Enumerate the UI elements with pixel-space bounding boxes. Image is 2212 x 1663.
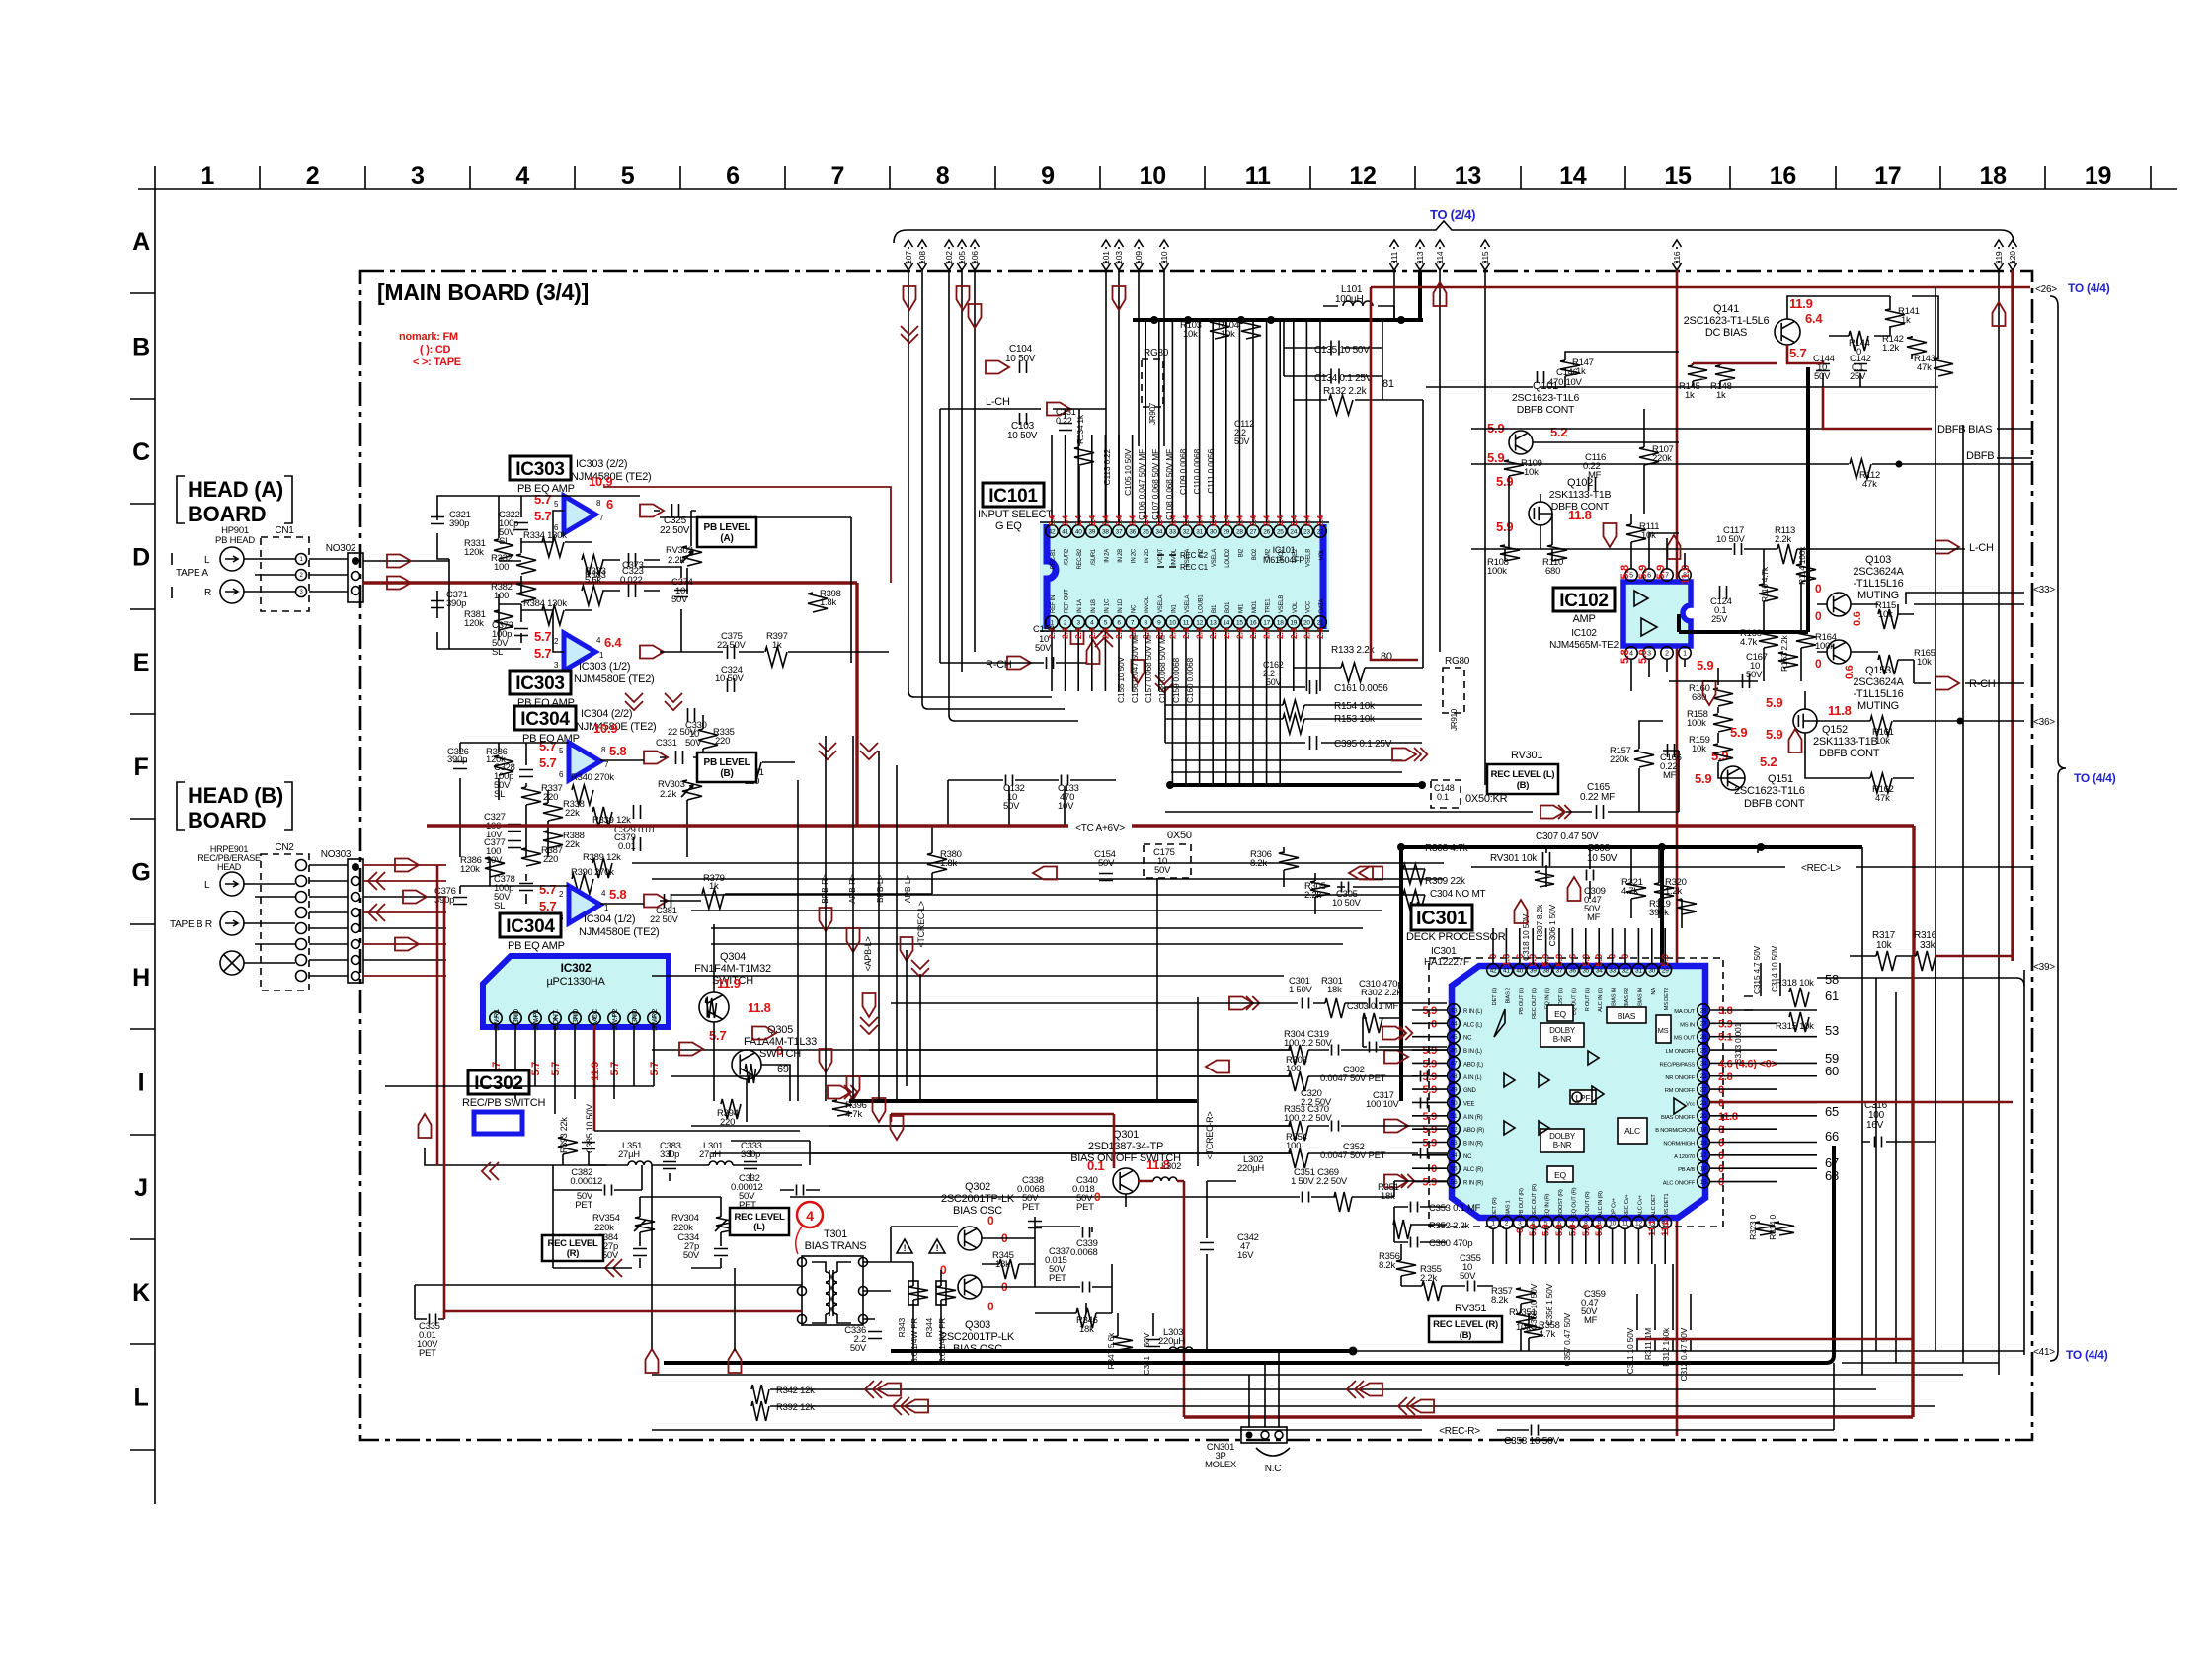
svg-text:C306 1 50V: C306 1 50V: [1547, 904, 1557, 946]
rec/pb head R: [220, 911, 244, 935]
wire: [1850, 955, 1916, 957]
IC302 spare blue box: [474, 1112, 522, 1134]
wire: [1545, 928, 1547, 963]
wire: [1401, 847, 1590, 899]
wire: [1293, 320, 1295, 524]
wire: [363, 560, 449, 562]
svg-text:8.2k: 8.2k: [1491, 1295, 1508, 1306]
svg-text:2.4: 2.4: [1302, 627, 1311, 639]
svg-text:5.7: 5.7: [1789, 346, 1806, 360]
svg-text:5.8: 5.8: [609, 887, 626, 902]
capacitor C146: [1538, 371, 1544, 383]
svg-text:109: 109: [1134, 251, 1144, 265]
wire: [1412, 1062, 1447, 1064]
IC101 package: [1040, 522, 1329, 631]
svg-text:1k: 1k: [1716, 390, 1726, 401]
svg-text:50V: 50V: [1460, 1271, 1476, 1282]
resistor R164: [1796, 632, 1816, 648]
svg-text:47k: 47k: [1917, 362, 1932, 373]
svg-text:50V: 50V: [602, 1250, 619, 1261]
svg-text:5.8: 5.8: [1619, 649, 1631, 664]
arrow: [395, 859, 419, 872]
svg-text:ALC (R): ALC (R): [1463, 1167, 1483, 1173]
capacitor C317: [1421, 1098, 1428, 1109]
svg-text:42: 42: [1490, 967, 1497, 974]
svg-text:C106 0.047 50V MF: C106 0.047 50V MF: [1137, 449, 1146, 520]
wire: [1279, 320, 1281, 524]
svg-text:C356 1 50V: C356 1 50V: [1544, 1283, 1554, 1325]
svg-text:REC OUT (R): REC OUT (R): [1532, 1184, 1538, 1217]
wire: [443, 1311, 446, 1319]
svg-text:0: 0: [1718, 1177, 1724, 1189]
inductor L351: [628, 1161, 652, 1165]
wire: [652, 1049, 1291, 1051]
capacitor C379: [634, 837, 641, 851]
svg-text:5.7: 5.7: [709, 1028, 726, 1043]
svg-text:B-NR: B-NR: [1553, 1035, 1572, 1044]
capacitor C334: [714, 1249, 728, 1256]
svg-text:VSELB: VSELB: [1305, 549, 1311, 567]
wire: [2023, 970, 2025, 1355]
resistor R142: [1907, 337, 1927, 355]
wire: [244, 884, 295, 963]
svg-text:Q304: Q304: [720, 951, 746, 963]
svg-text:4.7k: 4.7k: [845, 1109, 862, 1120]
wire: [436, 865, 439, 1165]
svg-text:10k: 10k: [1878, 609, 1893, 620]
wire: [1305, 320, 1307, 524]
svg-text:RV301: RV301: [1511, 750, 1542, 761]
svg-text:C395 0.1 25V: C395 0.1 25V: [1334, 739, 1392, 750]
wire: [1212, 629, 1214, 785]
svg-text:16V: 16V: [1866, 1120, 1884, 1131]
svg-text:MS DET1: MS DET1: [1664, 1194, 1670, 1217]
svg-text:Q102: Q102: [1567, 477, 1593, 489]
svg-text:114: 114: [1435, 251, 1445, 264]
wire: [1091, 435, 1093, 524]
resistor R162: [1870, 773, 1892, 793]
svg-text:C360 470p: C360 470p: [1429, 1238, 1472, 1249]
svg-text:1: 1: [1683, 651, 1687, 658]
resistor R103: [1210, 321, 1229, 339]
resistor R333: [582, 555, 603, 575]
resistor R337: [521, 787, 541, 805]
svg-text:2.4: 2.4: [1289, 515, 1299, 526]
svg-text:C159 0.0068: C159 0.0068: [1171, 658, 1181, 703]
wire: [1294, 400, 1423, 668]
svg-text:( ): CD: ( ): CD: [420, 344, 451, 356]
wire: [1571, 1229, 1573, 1264]
wire: [1585, 928, 1587, 963]
resistor R345: [999, 1259, 1019, 1279]
wire: [1651, 1229, 1653, 1264]
wire: [1165, 687, 1422, 743]
wire: [1710, 1088, 1777, 1090]
svg-text:36: 36: [1129, 528, 1136, 535]
capacitor C371: [431, 601, 444, 608]
svg-text:PB HEAD: PB HEAD: [215, 535, 255, 546]
wire: [1051, 435, 1053, 524]
svg-text:5.9: 5.9: [1718, 1018, 1733, 1030]
svg-text:48: 48: [1451, 1073, 1458, 1080]
capacitor C338: [1028, 1222, 1042, 1228]
wire: [1294, 399, 1423, 401]
svg-text:5.9: 5.9: [1766, 727, 1782, 742]
arrow: [644, 895, 668, 908]
resistor R355: [1422, 1281, 1442, 1301]
svg-text:30: 30: [1210, 528, 1217, 535]
wire: [1710, 1049, 1777, 1051]
svg-text:5.8: 5.8: [609, 744, 626, 758]
svg-text:BOOST (R): BOOST (R): [1558, 1189, 1564, 1217]
wire: [1145, 629, 1146, 691]
resistor R104: [1241, 321, 1261, 339]
svg-text:Q103: Q103: [1865, 554, 1891, 566]
wire: [1225, 629, 1227, 785]
svg-text:AMP: AMP: [1572, 613, 1595, 625]
svg-text:20: 20: [1700, 1113, 1707, 1120]
svg-text:Q101: Q101: [1533, 380, 1558, 392]
wire: [1484, 270, 1486, 785]
svg-text:R392 12k: R392 12k: [776, 1402, 815, 1413]
IC304 label box (2/2): [514, 706, 576, 730]
svg-text:R308 4.7k: R308 4.7k: [1425, 843, 1469, 854]
svg-text:(L): (L): [753, 1222, 764, 1232]
resistor R393: [558, 1137, 578, 1154]
capacitor C303: [1370, 1042, 1377, 1053]
svg-text:10 50V: 10 50V: [1007, 431, 1038, 441]
svg-text:R114 100k: R114 100k: [1797, 546, 1807, 585]
svg-text:RG80: RG80: [1445, 656, 1470, 667]
svg-text:100: 100: [494, 591, 509, 601]
svg-text:C: C: [132, 438, 150, 466]
IC301 right pins: [1698, 1004, 1710, 1017]
svg-text:11: 11: [1622, 1220, 1629, 1227]
svg-text:120: 120: [2008, 251, 2017, 265]
svg-text:220µH: 220µH: [1158, 1336, 1185, 1347]
svg-text:R IN (L): R IN (L): [1463, 1009, 1482, 1015]
svg-text:47k: 47k: [1875, 793, 1890, 804]
arrow: [1392, 749, 1416, 761]
wire: [1104, 435, 1106, 524]
svg-text:5.9: 5.9: [1496, 519, 1513, 534]
IC101 pins bottom: [1046, 616, 1059, 629]
svg-text:100 2.2 50V: 100 2.2 50V: [1284, 1113, 1332, 1124]
wire: [363, 583, 857, 826]
wire: [1962, 425, 1964, 1363]
svg-text:R323 0: R323 0: [1748, 1214, 1758, 1239]
svg-text:7: 7: [830, 162, 844, 190]
svg-text:<APB-L>: <APB-L>: [863, 937, 873, 972]
svg-text:28: 28: [1700, 1007, 1707, 1014]
capacitor C326: [453, 762, 467, 769]
svg-text:NC: NC: [1132, 604, 1138, 613]
svg-text:5.9: 5.9: [1496, 474, 1513, 489]
svg-text:39: 39: [1530, 967, 1537, 974]
wire: [1077, 629, 1079, 691]
wire: [1571, 928, 1573, 963]
svg-text:IC302: IC302: [561, 961, 592, 975]
arrow: [1047, 403, 1070, 416]
svg-text:R344: R344: [924, 1317, 934, 1337]
IC302 package: [483, 956, 669, 1027]
svg-text:1.2k: 1.2k: [1665, 886, 1682, 897]
wire: [908, 270, 909, 612]
arrow: [1935, 541, 1959, 554]
wire: [1585, 1229, 1587, 1264]
resistor R113: [1777, 544, 1797, 564]
wire: [711, 927, 1363, 929]
svg-text:ALC DET: ALC DET: [1651, 1194, 1657, 1217]
svg-text:41: 41: [1503, 967, 1510, 974]
svg-text:5.9: 5.9: [1637, 565, 1649, 580]
resistor R353: [1289, 1121, 1308, 1141]
capacitor C319: [1332, 1045, 1339, 1056]
svg-text:0.22: 0.22: [1056, 416, 1072, 426]
wire: [1225, 320, 1227, 524]
svg-text:2.2k: 2.2k: [1420, 1273, 1437, 1284]
svg-text:NC: NC: [1463, 1036, 1472, 1042]
svg-text:0.0047 50V PET: 0.0047 50V PET: [1320, 1073, 1386, 1084]
svg-text:16: 16: [1250, 619, 1257, 626]
svg-text:DECK PROCESSOR: DECK PROCESSOR: [1406, 931, 1506, 943]
svg-text:1k: 1k: [772, 640, 782, 651]
svg-text:22 50V: 22 50V: [668, 727, 697, 738]
svg-text:ABO (R): ABO (R): [1463, 1128, 1484, 1134]
svg-text:5.7: 5.7: [539, 755, 556, 770]
wire: [825, 736, 827, 1101]
svg-text:2SC1623-T1L6: 2SC1623-T1L6: [1734, 785, 1805, 797]
svg-text:C307 0.47 50V: C307 0.47 50V: [1536, 831, 1599, 842]
svg-text:58: 58: [1825, 972, 1839, 987]
svg-text:PB LEVEL: PB LEVEL: [704, 757, 750, 768]
capacitor C342: [1200, 1243, 1214, 1250]
svg-text:BIAS TRANS: BIAS TRANS: [805, 1240, 867, 1252]
svg-text:5.9: 5.9: [1695, 771, 1711, 786]
warning triangles: [897, 1239, 945, 1253]
resistor R318: [1789, 988, 1809, 1007]
svg-text:IN1: IN1: [1171, 604, 1177, 614]
transistor Q102: [1529, 502, 1552, 525]
svg-text:Vcc: Vcc: [1686, 1101, 1695, 1107]
connector <114>: [1436, 240, 1445, 270]
wire: [1412, 1075, 1447, 1077]
svg-text:/SUR2: /SUR2: [1065, 548, 1070, 565]
wire: [1598, 1229, 1600, 1264]
svg-text:108: 108: [917, 251, 927, 265]
wire: [1651, 928, 1653, 963]
svg-text:22k: 22k: [565, 808, 580, 819]
arrow: [904, 286, 916, 310]
svg-text:EQ OUT (R): EQ OUT (R): [1571, 1187, 1577, 1217]
svg-text:33: 33: [1609, 967, 1616, 974]
arrow: [1668, 535, 1681, 559]
svg-text:2SC1623-T1-L5L6: 2SC1623-T1-L5L6: [1684, 315, 1770, 327]
svg-text:2.4: 2.4: [1073, 627, 1083, 639]
svg-text:GND: GND: [571, 1008, 580, 1025]
svg-text:17: 17: [1263, 619, 1270, 626]
svg-text:2.4: 2.4: [1100, 515, 1110, 526]
arrow: [969, 304, 982, 328]
svg-text:Q152: Q152: [1822, 724, 1848, 736]
wire: [711, 1152, 1291, 1154]
wire: [1284, 320, 1382, 400]
svg-text:REC-B1: REC-B1: [1051, 548, 1057, 569]
arrow: [1087, 640, 1100, 664]
svg-text:B IN (R): B IN (R): [1463, 1142, 1483, 1148]
svg-text:IC301: IC301: [1431, 946, 1457, 957]
wire - heavy bus: [849, 1099, 1197, 1103]
capacitor C360: [1411, 1237, 1418, 1248]
capacitor C395: [1310, 736, 1317, 750]
svg-text:ALC (L): ALC (L): [1463, 1022, 1482, 1028]
svg-text:RG80: RG80: [1144, 348, 1169, 358]
svg-text:REC OUT (L): REC OUT (L): [1532, 988, 1538, 1019]
resistor R301: [1325, 998, 1345, 1018]
svg-text:C313 0.001: C313 0.001: [1733, 1022, 1743, 1064]
svg-text:2.4: 2.4: [1315, 627, 1325, 639]
resistor R382: [516, 583, 536, 602]
svg-text:<TCREC-L>: <TCREC-L>: [916, 901, 926, 947]
svg-text:(B): (B): [720, 768, 733, 779]
svg-text:2: 2: [1665, 651, 1669, 658]
arrow: [820, 1049, 832, 1072]
connector CN301: [1241, 1427, 1287, 1443]
svg-text:EQ: EQ: [1554, 1009, 1566, 1019]
wire: [309, 559, 348, 592]
svg-text:40: 40: [1075, 528, 1082, 535]
label HEAD (A) BOARD: [177, 476, 185, 523]
svg-text:38: 38: [1542, 967, 1549, 974]
svg-text:C331: C331: [656, 738, 677, 749]
svg-text:BIAS ON/OFF: BIAS ON/OFF: [1661, 1115, 1696, 1121]
svg-text:PET: PET: [1076, 1202, 1094, 1213]
arrow: [1703, 681, 1716, 705]
wire: [1412, 1181, 1447, 1183]
svg-text:R314 0: R314 0: [1768, 1214, 1777, 1239]
inductor L302: [1153, 1177, 1177, 1181]
svg-text:5.7: 5.7: [534, 629, 551, 644]
brace TO (4/4) right: [2050, 296, 2066, 1361]
inductor L301: [709, 1161, 733, 1165]
wire: [363, 864, 446, 866]
svg-text:27: 27: [1250, 528, 1257, 535]
svg-text:<33>: <33>: [2033, 585, 2055, 595]
wire: [940, 409, 1106, 663]
transistor Q152: [1793, 709, 1817, 733]
svg-text:10k: 10k: [1183, 329, 1198, 340]
resistor R389: [592, 858, 612, 878]
IC302 label box: [468, 1070, 529, 1094]
wire - <26> maroon: [1371, 286, 2030, 289]
resistor R321: [1626, 883, 1646, 899]
capacitor C104: [1020, 361, 1027, 373]
arrow: [1113, 286, 1126, 310]
wire: [244, 559, 295, 592]
svg-text:REC LEVEL (L): REC LEVEL (L): [1491, 769, 1555, 780]
wire: [1266, 629, 1268, 785]
arrow: [1789, 729, 1802, 752]
capacitor C374: [674, 591, 688, 597]
svg-text:R133 2.2k: R133 2.2k: [1331, 645, 1376, 656]
svg-text:50V: 50V: [850, 1343, 867, 1354]
svg-text:34: 34: [1596, 967, 1603, 974]
svg-text:10k: 10k: [1692, 744, 1706, 754]
svg-text:IC304: IC304: [506, 916, 555, 937]
svg-text:DBFB CONT: DBFB CONT: [1517, 404, 1575, 416]
svg-text:2SC3624A: 2SC3624A: [1853, 676, 1904, 688]
wire: [1842, 1362, 1999, 1364]
svg-text:2.4: 2.4: [1234, 627, 1244, 639]
capacitor C339: [1083, 1282, 1090, 1293]
svg-text:NJM4580E (TE2): NJM4580E (TE2): [579, 926, 659, 938]
wire: [1412, 1088, 1447, 1090]
svg-text:CN2: CN2: [275, 842, 294, 853]
resistor R397: [765, 647, 787, 667]
svg-text:(B): (B): [1460, 1330, 1472, 1341]
wire: [1505, 1229, 1507, 1264]
wire: [652, 1363, 1834, 1430]
svg-text:IC101: IC101: [1273, 545, 1296, 555]
capacitor C372: [514, 629, 528, 636]
capacitor C131: [1059, 424, 1072, 431]
capacitor C165: [1597, 805, 1604, 819]
arrow: [1382, 1027, 1406, 1040]
svg-text:R OUT (L): R OUT (L): [1585, 988, 1591, 1012]
svg-text:B IN (L): B IN (L): [1463, 1049, 1482, 1055]
connector <109>: [1135, 240, 1144, 270]
svg-text:10 50V: 10 50V: [1587, 853, 1618, 864]
arrow: [640, 505, 664, 517]
svg-text:<41>: <41>: [2033, 1347, 2055, 1358]
IC303 label box (2/2): [510, 456, 571, 480]
wire: [1118, 270, 1120, 522]
resistor R346: [1076, 1308, 1096, 1328]
svg-text:5.8: 5.8: [1619, 565, 1631, 580]
capacitor C383: [663, 1162, 676, 1169]
resistor R141: [1885, 309, 1905, 327]
IC102 label box: [1553, 588, 1615, 611]
transistor Q301: [1113, 1168, 1139, 1194]
capacitor C166: [1668, 744, 1675, 757]
resistor R356: [1396, 1260, 1416, 1276]
wire: [948, 780, 1116, 826]
connector CN1: [261, 537, 309, 611]
svg-text:GND: GND: [1463, 1088, 1477, 1094]
svg-text:DBFB: DBFB: [1966, 450, 1994, 462]
wire - Q141 bias maroon: [1693, 345, 1823, 365]
arrow: [1229, 997, 1253, 1010]
svg-text:DOLBY: DOLBY: [1549, 1026, 1576, 1035]
svg-text:68: 68: [1825, 1168, 1839, 1183]
PB head L: [220, 547, 244, 571]
op-amp IC304 2/2: [569, 743, 600, 780]
svg-text:C353 0.1 MF: C353 0.1 MF: [1429, 1203, 1481, 1214]
svg-text:2.4: 2.4: [1302, 515, 1311, 526]
svg-text:15: 15: [1236, 619, 1243, 626]
svg-text:50V: 50V: [671, 594, 688, 605]
pot RV302: [682, 546, 702, 566]
svg-text:0: 0: [1718, 1138, 1724, 1149]
svg-text:11: 11: [1245, 162, 1271, 190]
wire: [437, 591, 521, 649]
wire: [1676, 270, 1679, 1436]
svg-text:38: 38: [1102, 528, 1109, 535]
svg-text:10k: 10k: [1917, 657, 1932, 668]
wire: [1284, 847, 1682, 928]
svg-text:14: 14: [1223, 619, 1229, 626]
svg-text:PB A/B: PB A/B: [1678, 1167, 1695, 1173]
